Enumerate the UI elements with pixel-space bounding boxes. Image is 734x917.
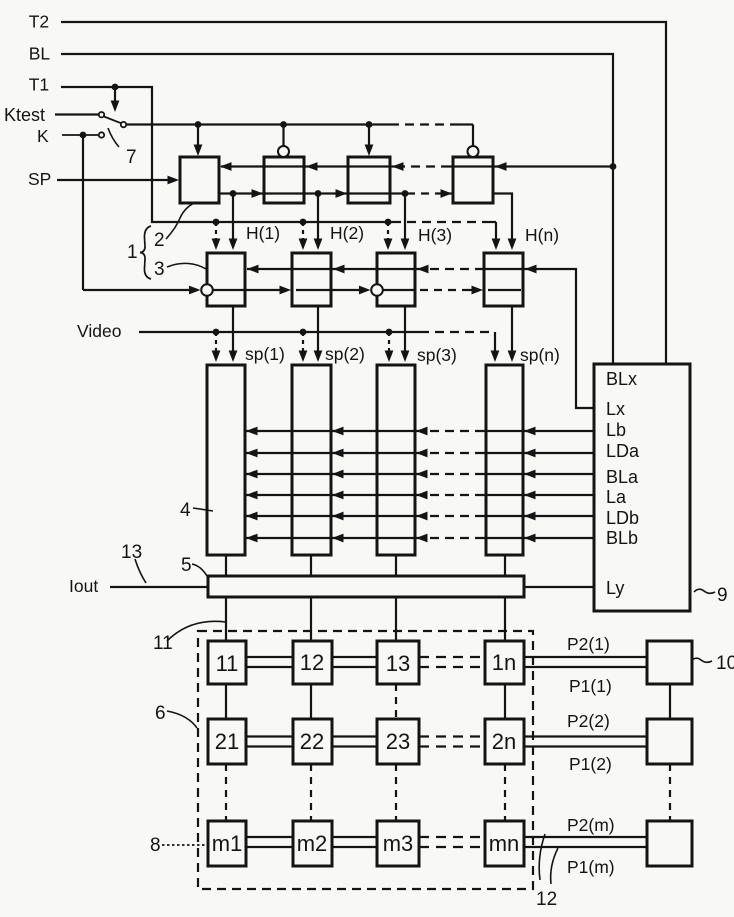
svg-text:BL: BL [29,44,51,64]
svg-text:m3: m3 [383,831,414,856]
svg-text:LDb: LDb [606,508,639,528]
svg-text:T1: T1 [29,74,49,94]
svg-text:2: 2 [154,230,165,251]
svg-text:6: 6 [155,703,166,724]
svg-text:Ly: Ly [606,578,624,598]
svg-text:21: 21 [215,729,239,754]
svg-text:sp(1): sp(1) [245,344,285,364]
svg-text:3: 3 [154,259,165,280]
svg-text:La: La [606,487,627,507]
svg-text:13: 13 [386,651,410,676]
svg-text:Lb: Lb [606,420,626,440]
svg-text:H(3): H(3) [418,225,452,245]
svg-text:H(n): H(n) [525,225,559,245]
svg-text:2n: 2n [492,729,516,754]
svg-text:sp(2): sp(2) [325,344,365,364]
svg-text:BLb: BLb [606,528,638,548]
svg-text:13: 13 [121,542,142,563]
svg-text:7: 7 [126,147,137,168]
svg-text:LDa: LDa [606,441,640,461]
svg-text:mn: mn [489,831,520,856]
svg-text:m2: m2 [297,831,328,856]
svg-text:P1(2): P1(2) [569,754,612,774]
svg-text:11: 11 [153,633,173,654]
svg-text:BLx: BLx [606,369,637,389]
svg-text:1n: 1n [492,650,516,675]
svg-text:P2(1): P2(1) [567,634,610,654]
svg-text:12: 12 [300,650,324,675]
svg-text:12: 12 [536,889,557,910]
svg-text:P2(2): P2(2) [567,711,610,731]
svg-text:sp(n): sp(n) [520,345,560,365]
svg-text:Ktest: Ktest [4,105,45,125]
svg-text:T2: T2 [29,12,49,32]
svg-text:H(2): H(2) [330,223,364,243]
svg-text:P1(m): P1(m) [567,857,615,877]
svg-text:Iout: Iout [69,576,98,596]
svg-text:SP: SP [28,169,51,189]
svg-text:9: 9 [717,585,728,606]
svg-text:BLa: BLa [606,467,639,487]
svg-text:4: 4 [180,500,191,521]
svg-text:Video: Video [77,321,121,341]
svg-text:sp(3): sp(3) [417,345,457,365]
svg-text:1: 1 [127,242,138,263]
svg-text:23: 23 [386,729,410,754]
svg-text:10: 10 [716,653,734,674]
svg-text:P2(m): P2(m) [567,815,615,835]
svg-text:8: 8 [150,835,161,856]
svg-text:Lx: Lx [606,399,625,419]
svg-text:11: 11 [216,651,239,676]
svg-text:m1: m1 [212,831,243,856]
svg-text:H(1): H(1) [246,223,280,243]
svg-text:5: 5 [181,555,192,576]
svg-text:22: 22 [300,729,324,754]
svg-text:K: K [37,126,49,146]
svg-text:P1(1): P1(1) [569,676,612,696]
